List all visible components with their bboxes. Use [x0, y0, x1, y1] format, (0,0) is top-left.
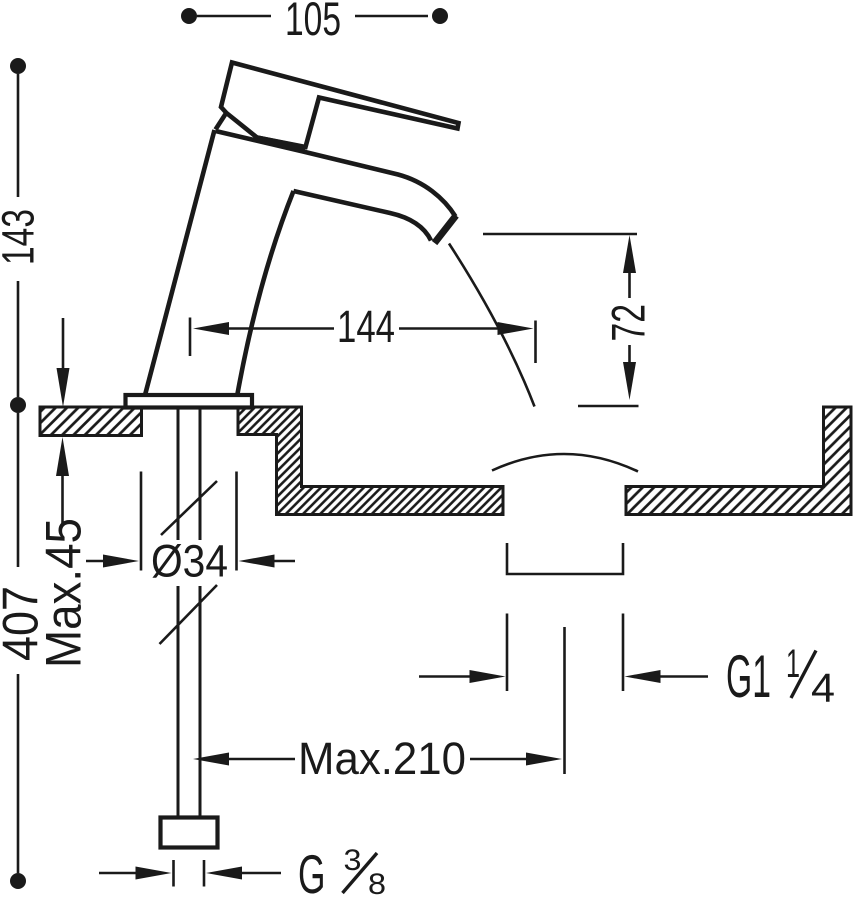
dimension G1 1/4: fraction slash: [791, 651, 816, 699]
dimension Max.45: lower arrow line: [61, 474, 64, 523]
dimension O34: right line: [273, 560, 295, 563]
dimension 144: right tick: [534, 321, 537, 364]
dimension 407: lower line: [17, 674, 20, 873]
dimension G1 1/4: right line: [659, 675, 708, 678]
dimension O34: upper diagonal leader: [161, 481, 217, 535]
faucet body top edge and spout outer curve: [216, 131, 456, 217]
counter left slab (hatched): [40, 407, 142, 436]
drain center line: [563, 627, 566, 774]
dimension 144: left arrowhead: [193, 322, 229, 335]
dimension G1 1/4: left arrowhead: [470, 670, 506, 683]
dimension 407: bottom dot: [10, 873, 26, 889]
dimension O34: left extension tick: [140, 472, 143, 571]
dimension G 3/8: fraction slash: [343, 853, 378, 893]
dimension 407: upper line: [17, 413, 20, 567]
dimension Max.210: right arrowhead: [526, 753, 562, 766]
dimension 72: up arrowhead: [623, 235, 636, 273]
drain pipe left line: [506, 614, 509, 692]
faucet body right edge: [237, 191, 294, 397]
svg-text:Ø34: Ø34: [151, 536, 228, 587]
faucet body left edge: [145, 130, 215, 397]
dimension 144: right line: [399, 327, 499, 330]
dimension 72: down arrowhead: [623, 362, 636, 400]
dimension G 3/8: right arrowhead: [206, 867, 242, 880]
swivel arc from spout: [449, 244, 535, 407]
dimension 72: lower line: [628, 345, 631, 366]
dimension 105: right dot: [432, 8, 448, 24]
dimension G1 1/4: left line: [419, 675, 472, 678]
faucet handle neck segment: [216, 113, 227, 130]
dimension 143: top dot: [10, 58, 26, 74]
supply pipe right line lower: [199, 586, 202, 818]
supply pipe right line upper: [199, 407, 202, 540]
dimension O34: right arrowhead: [239, 555, 275, 568]
dimension G1 1/4: right arrowhead: [625, 670, 661, 683]
dimension O34: right extension tick: [235, 472, 238, 571]
spout inner edge: [294, 191, 432, 241]
drain flange U: [507, 543, 623, 574]
dimension G 3/8: right tick: [203, 860, 206, 887]
dimension 105: right line: [355, 15, 428, 18]
supply pipe left line upper: [177, 407, 180, 540]
svg-text:4: 4: [811, 665, 835, 711]
supply pipe bottom nut: [161, 818, 218, 848]
dimension 72: bottom reference line: [578, 405, 639, 408]
dimension 143/407: middle dot: [10, 397, 26, 413]
dimension 143: upper line: [17, 74, 20, 197]
svg-text:Max.210: Max.210: [298, 733, 466, 784]
dimension Max.45: up arrowhead: [56, 437, 69, 476]
dimension O34: left line: [86, 560, 105, 563]
dimension Max.45: upper arrow line: [62, 318, 65, 370]
counter right step section (hatched): [238, 407, 503, 515]
dimension Max.210: left arrowhead: [193, 753, 229, 766]
dimension 144: left line: [228, 327, 334, 330]
dimension 105: left line: [197, 15, 271, 18]
dimension G 3/8: left tick: [172, 860, 175, 887]
supply pipe left line lower: [177, 586, 180, 818]
counter right L section (hatched): [626, 407, 851, 515]
basin bowl arc: [492, 454, 638, 472]
svg-text:105: 105: [285, 0, 341, 45]
dimension 144: left tick: [189, 318, 192, 357]
dimension O34: left arrowhead: [103, 555, 139, 568]
faucet handle lever (outline): [221, 63, 459, 148]
dimension G 3/8: left arrowhead: [136, 867, 172, 880]
dimension 72: upper line: [628, 271, 631, 298]
dimension 144: right arrowhead: [498, 322, 534, 335]
svg-text:72: 72: [602, 304, 655, 342]
svg-text:143: 143: [0, 209, 44, 265]
dimension Max.210: left line: [228, 758, 295, 761]
dimension 72: top reference line: [483, 233, 637, 236]
dimension O34: lower diagonal leader: [160, 585, 218, 644]
svg-text:144: 144: [337, 301, 395, 352]
svg-text:1: 1: [786, 642, 800, 686]
dimension 143: lower line: [17, 281, 20, 397]
svg-text:Max.45: Max.45: [36, 518, 92, 668]
svg-text:G: G: [298, 843, 326, 900]
faucet base plate: [126, 395, 253, 408]
drain pipe right line: [622, 614, 625, 692]
dimension Max.210: right line: [470, 758, 528, 761]
svg-text:G1: G1: [726, 643, 771, 710]
spout tip face: [435, 216, 457, 244]
svg-text:8: 8: [368, 868, 386, 900]
dimension G 3/8: left line: [99, 872, 137, 875]
dimension Max.45: down arrowhead: [57, 368, 70, 407]
dimension G 3/8: right line: [241, 872, 281, 875]
faucet handle bottom thick edge: [257, 138, 306, 148]
dimension 105 top: left dot: [181, 8, 197, 24]
